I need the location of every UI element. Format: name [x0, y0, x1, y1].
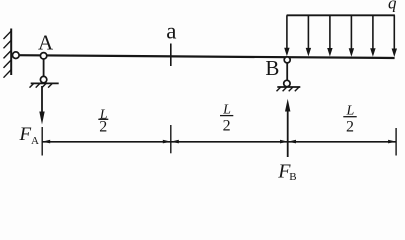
svg-text:B: B [265, 56, 279, 80]
svg-text:a: a [166, 19, 176, 44]
svg-text:2: 2 [99, 119, 107, 136]
svg-text:A: A [38, 30, 54, 54]
svg-text:A: A [31, 135, 39, 147]
svg-text:B: B [289, 171, 296, 180]
svg-text:2: 2 [223, 118, 231, 135]
svg-text:q: q [388, 0, 397, 13]
svg-text:2: 2 [346, 119, 354, 136]
svg-text:F: F [19, 124, 32, 145]
